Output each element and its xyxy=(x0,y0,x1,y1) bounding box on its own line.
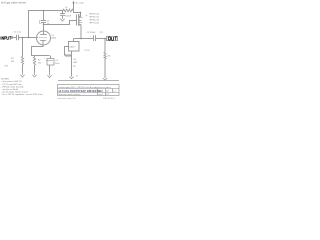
svg-text:1k: 1k xyxy=(65,7,68,9)
ground C2 xyxy=(47,73,51,78)
svg-text:68R: 68R xyxy=(73,62,77,64)
svg-text:rev: rev xyxy=(98,91,101,93)
node load junction xyxy=(104,38,106,40)
separator rule xyxy=(58,80,119,82)
capacitor C3 xyxy=(87,32,104,41)
svg-text:1M: 1M xyxy=(11,61,14,63)
svg-text:5W: 5W xyxy=(73,66,76,68)
wire grid xyxy=(19,37,37,39)
svg-text:drawn by: hand + gschem: drawn by: hand + gschem xyxy=(59,93,81,96)
svg-text:R1: R1 xyxy=(11,58,15,60)
resistor R6 load xyxy=(104,39,111,79)
node drain corner xyxy=(80,12,81,13)
wire source drop xyxy=(80,25,82,39)
svg-text:+: + xyxy=(90,36,92,38)
node rail-decoupling junction xyxy=(62,10,64,12)
svg-text:C2: C2 xyxy=(55,60,59,62)
svg-text:47k: 47k xyxy=(107,56,110,58)
svg-text:HI-FI.GG BOOTSTRAP DRIVER MK2: HI-FI.GG BOOTSTRAP DRIVER MK2 xyxy=(59,90,104,93)
svg-text:1.2: 1.2 xyxy=(113,91,116,93)
resistor R4 xyxy=(63,7,74,12)
node source-output junction xyxy=(80,38,82,40)
svg-text:- do not power without a load: - do not power without a load xyxy=(1,91,27,94)
svg-text:LM317: LM317 xyxy=(69,47,76,49)
transistor Q1 xyxy=(77,14,88,26)
wire drain feed xyxy=(74,11,81,17)
wire rail to grid drop xyxy=(28,11,30,38)
resistor R2 xyxy=(33,56,42,73)
svg-text:+: + xyxy=(57,12,59,14)
ground R1 xyxy=(20,73,24,78)
resistor R5 xyxy=(65,54,78,68)
node rail-plate junction xyxy=(43,10,45,12)
node grid leak junction xyxy=(22,37,24,39)
svg-text:2016-04-30 r1: 2016-04-30 r1 xyxy=(103,97,115,100)
svg-text:- B+ is 24V DC regulated - see: - B+ is 24V DC regulated - see the PSU s… xyxy=(1,93,43,96)
svg-text:C3 470uF: C3 470uF xyxy=(87,32,97,34)
svg-text:- all resistors 0.6W 1%: - all resistors 0.6W 1% xyxy=(1,80,22,83)
svg-text:150: 150 xyxy=(38,63,42,65)
title block text xyxy=(59,86,116,96)
wire input to C1 xyxy=(13,37,17,39)
svg-text:a): a) xyxy=(86,15,88,17)
supply terminal B+ xyxy=(72,1,84,11)
svg-text:IRF710-B: IRF710-B xyxy=(89,22,99,24)
svg-text:hi-fi.gg valve driver: hi-fi.gg valve driver xyxy=(1,1,26,5)
Q1 alternative part labels xyxy=(89,13,99,24)
svg-text:- set bias to 20mA: - set bias to 20mA xyxy=(1,88,18,91)
triode V1 xyxy=(37,31,58,45)
connector INPUT xyxy=(1,37,13,40)
svg-text:released cc-by-sa 3.0: released cc-by-sa 3.0 xyxy=(58,97,76,100)
svg-text:25V: 25V xyxy=(99,32,103,34)
svg-text:bootstrapped 6922 + IRF510 cla: bootstrapped 6922 + IRF510 class-A headp… xyxy=(59,86,112,89)
svg-text:+: + xyxy=(44,57,46,59)
svg-text:C1 0.1u: C1 0.1u xyxy=(14,32,22,34)
svg-text:- C2 C3 rated 16V min: - C2 C3 rated 16V min xyxy=(1,83,21,86)
svg-text:IRF510-B: IRF510-B xyxy=(89,13,99,15)
notes block xyxy=(1,79,43,97)
connector OUT xyxy=(107,36,118,40)
svg-text:1M6: 1M6 xyxy=(4,65,9,67)
title block frame xyxy=(58,85,120,96)
svg-text:B+ volts: B+ volts xyxy=(76,1,85,4)
ground LM317 xyxy=(69,77,73,79)
ground decoupling xyxy=(60,18,64,22)
svg-text:100u: 100u xyxy=(55,63,59,65)
wire plate to gate xyxy=(44,21,77,25)
svg-text:TO220: TO220 xyxy=(84,50,90,52)
wire plate branch upper xyxy=(43,11,45,21)
svg-text:IRF612-B: IRF612-B xyxy=(89,19,99,21)
wire cap to plate xyxy=(43,23,45,32)
svg-text:R2: R2 xyxy=(38,59,42,61)
capacitor C4 xyxy=(40,20,51,24)
capacitor C1 xyxy=(14,32,22,41)
resistor R1 xyxy=(4,38,23,73)
svg-text:1/2: 1/2 xyxy=(106,94,109,96)
svg-text:100uF: 100uF xyxy=(65,16,71,18)
wire to output jack xyxy=(96,38,107,40)
capacitor C2 xyxy=(44,56,60,73)
wire cathode xyxy=(32,45,50,56)
wire output node xyxy=(74,38,94,40)
svg-text:6922: 6922 xyxy=(51,37,57,39)
copyright line xyxy=(58,97,115,100)
ground R2 xyxy=(32,73,36,78)
svg-text:IRF610-B: IRF610-B xyxy=(89,16,99,18)
svg-text:- IRF510 needs heatsink: - IRF510 needs heatsink xyxy=(1,85,24,88)
node bootstrap junction xyxy=(28,37,30,39)
svg-text:A4: A4 xyxy=(106,90,108,93)
svg-text:sheet: sheet xyxy=(98,93,103,96)
node plate-gate junction xyxy=(43,24,45,26)
svg-text:R5: R5 xyxy=(73,59,76,61)
wire ADJ xyxy=(65,47,69,56)
svg-text:0V: 0V xyxy=(76,75,79,77)
wire bootstrap rail xyxy=(28,10,63,12)
capacitor C5 decoupling xyxy=(57,11,72,18)
ground R6 xyxy=(103,78,107,80)
wire LM317 out pin xyxy=(71,51,73,77)
regulator U2 LM317 xyxy=(69,39,90,52)
